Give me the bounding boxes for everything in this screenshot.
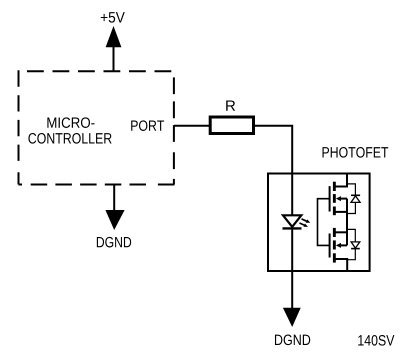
mosfet Q2 body arrow — [336, 243, 347, 248]
mosfet Q1 channel bars — [333, 182, 336, 216]
wire PORT to resistor — [174, 125, 210, 127]
power arrow +5V (points up) — [106, 26, 122, 71]
LED D1 vertical wire — [291, 174, 293, 272]
mosfet Q1 source wire — [334, 211, 347, 213]
wire common source node — [346, 199, 348, 246]
label +5V — [101, 12, 125, 22]
mosfet Q2 channel bars — [333, 228, 336, 263]
mosfet Q2 gate line — [329, 234, 331, 258]
label R — [226, 100, 235, 110]
label PHOTOFET — [323, 147, 389, 158]
mosfet Q1 body arrow — [336, 196, 347, 201]
mosfet Q1 gate bracket — [318, 199, 330, 246]
label DGND left — [97, 237, 131, 248]
mosfet Q1 gate line — [329, 186, 331, 211]
label MICRO-CONTROLLER — [47, 117, 94, 128]
body diode D2 (top) — [347, 184, 360, 214]
label PORT — [131, 120, 164, 131]
wire resistor to corner — [255, 126, 292, 174]
mosfet Q2 source wire — [334, 231, 347, 233]
label DGND right — [275, 335, 310, 346]
ground arrow DGND right (points down) — [283, 271, 301, 327]
resistor R — [210, 117, 253, 134]
ground arrow DGND left (points down) — [105, 185, 124, 231]
LED D1 triangle — [283, 215, 301, 227]
mosfet Q1 drain wire — [334, 174, 347, 187]
body diode D3 (bottom) — [347, 229, 360, 259]
label 140SV — [358, 335, 394, 346]
LED light emission arrows — [300, 219, 311, 227]
microcontroller U1 dashed box — [19, 70, 175, 184]
photofet box — [268, 174, 370, 272]
mosfet Q2 drain wire — [334, 259, 347, 271]
LED D1 cathode bar — [283, 227, 302, 229]
